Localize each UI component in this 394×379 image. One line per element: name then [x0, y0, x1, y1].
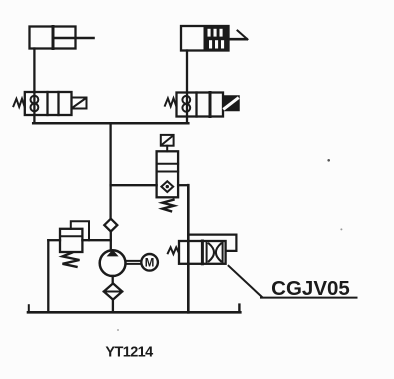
- svg-text:YT1214: YT1214: [105, 345, 153, 361]
- svg-text:CGJV05: CGJV05: [271, 277, 350, 300]
- svg-text:M: M: [145, 258, 155, 270]
